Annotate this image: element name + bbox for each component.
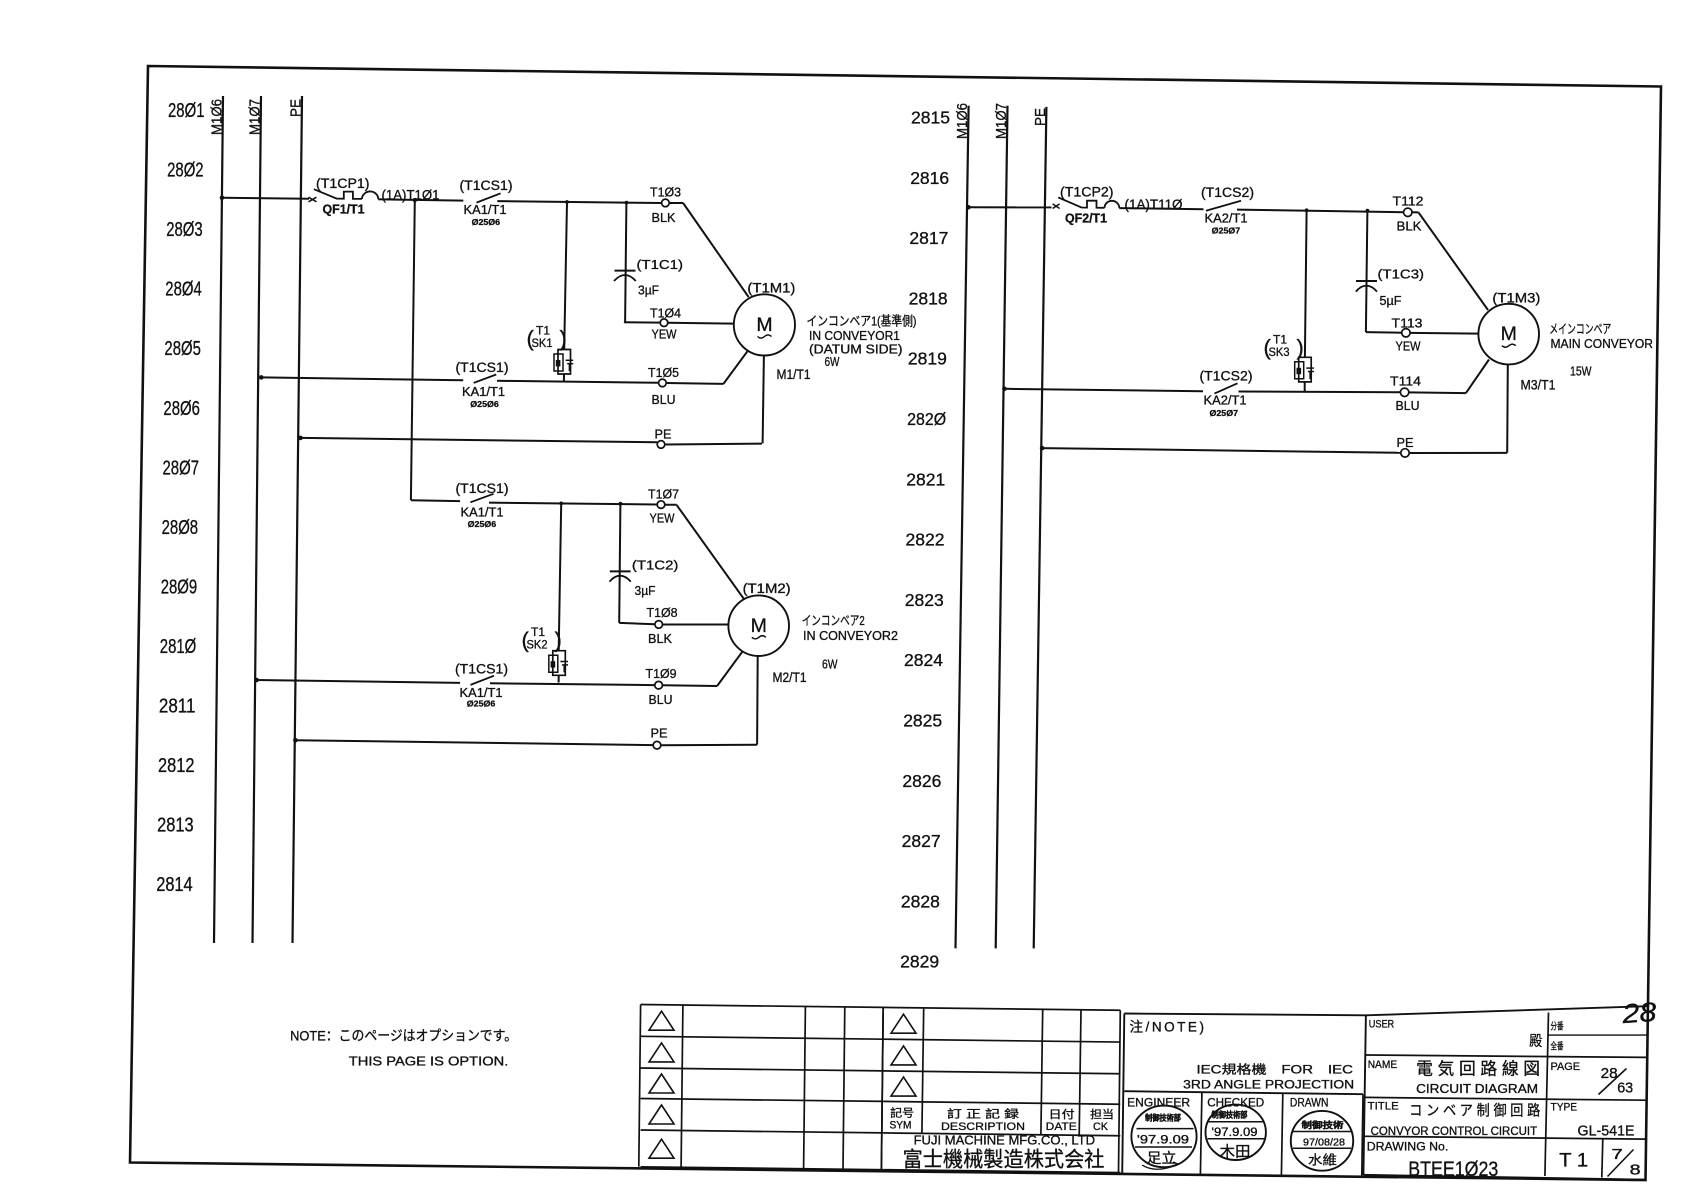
svg-text:): ): [1297, 335, 1304, 360]
svg-text:6W: 6W: [825, 355, 840, 369]
svg-text:制御技術: 制御技術: [1302, 1120, 1345, 1130]
svg-text:DRAWING No.: DRAWING No.: [1367, 1139, 1449, 1153]
svg-text:Ø25Ø6: Ø25Ø6: [468, 519, 497, 529]
svg-text:(T1CS1): (T1CS1): [456, 360, 509, 375]
label MAIN CONVEYOR: [1549, 322, 1653, 379]
svg-text:CHECKED: CHECKED: [1207, 1095, 1264, 1109]
motor M3 lead M3/T1: [1507, 364, 1555, 453]
svg-text:2811: 2811: [159, 696, 196, 718]
svg-text:Ø25Ø6: Ø25Ø6: [467, 699, 496, 709]
svg-text:IEC規格機 FOR IEC: IEC規格機 FOR IEC: [1197, 1061, 1354, 1076]
wire T109 BLU: [490, 651, 743, 707]
svg-text:足立: 足立: [1147, 1150, 1177, 1166]
svg-text:DRAWN: DRAWN: [1290, 1095, 1329, 1109]
svg-text:(DATUM SIDE): (DATUM SIDE): [809, 343, 903, 357]
capacitor C1 (T1C1) 3uF branch: [614, 201, 683, 323]
svg-text:FUJI MACHINE MFG.CO., LTD: FUJI MACHINE MFG.CO., LTD: [914, 1134, 1096, 1148]
svg-text:6W: 6W: [822, 657, 838, 671]
svg-text:28: 28: [1620, 997, 1657, 1029]
svg-text:SK3: SK3: [1269, 345, 1290, 359]
svg-text:Ø25Ø6: Ø25Ø6: [470, 399, 499, 409]
wire to T103: [497, 201, 661, 203]
svg-text:Ø25Ø7: Ø25Ø7: [1210, 408, 1239, 418]
motor M1 lead M1/T1: [763, 356, 811, 444]
svg-text:木田: 木田: [1220, 1144, 1251, 1161]
bus M106 (left): [210, 96, 226, 943]
svg-text:28Ø2: 28Ø2: [167, 160, 204, 182]
svg-text:(T1C2): (T1C2): [632, 557, 679, 572]
svg-text:BLU: BLU: [1396, 398, 1420, 413]
svg-text:MAIN CONVEYOR: MAIN CONVEYOR: [1551, 337, 1654, 351]
svg-text:PE: PE: [651, 726, 668, 741]
bus M107 (left): [248, 96, 264, 943]
svg-text:2818: 2818: [909, 288, 948, 308]
bus PE (right): [1033, 107, 1049, 949]
svg-text:SK1: SK1: [532, 336, 553, 350]
svg-text:BLU: BLU: [652, 392, 676, 407]
svg-text:2819: 2819: [908, 349, 947, 369]
svg-text:2814: 2814: [156, 874, 193, 896]
svg-text:M1/T1: M1/T1: [777, 367, 811, 382]
svg-text:7: 7: [1611, 1147, 1623, 1163]
wire circuit 2 top: [411, 499, 460, 502]
capacitor C3 (T1C3) 5uF branch: [1356, 209, 1424, 332]
svg-text:Ø25Ø6: Ø25Ø6: [472, 217, 501, 227]
svg-text:8: 8: [1630, 1163, 1641, 1179]
svg-text:28Ø7: 28Ø7: [163, 457, 200, 479]
node T103: [650, 185, 681, 225]
node T107 wire YEW: [648, 486, 679, 525]
svg-text:(T1CS1): (T1CS1): [460, 178, 513, 193]
wire T110: [1119, 197, 1203, 212]
svg-text:3RD ANGLE PROJECTION: 3RD ANGLE PROJECTION: [1183, 1078, 1354, 1092]
svg-text:(T1M1): (T1M1): [747, 280, 795, 295]
svg-text:インコンベア1(基準側): インコンベア1(基準側): [807, 314, 917, 329]
svg-text:T112: T112: [1393, 193, 1424, 208]
svg-text:T1Ø4: T1Ø4: [650, 305, 681, 320]
svg-text:(T1CP1): (T1CP1): [316, 176, 370, 191]
capacitor C2 (T1C2) 3uF branch: [610, 502, 679, 623]
svg-text:28Ø5: 28Ø5: [164, 338, 201, 360]
svg-text:SK2: SK2: [527, 638, 548, 652]
svg-text:(T1CS2): (T1CS2): [1201, 185, 1254, 200]
svg-text:DESCRIPTION: DESCRIPTION: [941, 1121, 1025, 1133]
svg-text:'97.9.09: '97.9.09: [1212, 1127, 1258, 1139]
svg-text:(T1M3): (T1M3): [1492, 290, 1540, 305]
svg-text:USER: USER: [1369, 1019, 1395, 1031]
contact KA2/T1 (T1CS2) lower: [1200, 368, 1253, 418]
svg-text:BLU: BLU: [649, 692, 673, 707]
wire T112 diagonal to motor M3: [1412, 212, 1488, 310]
svg-text:(T1M2): (T1M2): [743, 581, 791, 596]
svg-text:2829: 2829: [900, 952, 939, 972]
svg-text:(T1CS1): (T1CS1): [456, 481, 509, 496]
engineer stamp: [1131, 1106, 1196, 1170]
svg-text:(T1CS2): (T1CS2): [1200, 368, 1253, 383]
svg-text:KA1/T1: KA1/T1: [461, 506, 504, 520]
svg-text:BLK: BLK: [648, 631, 672, 646]
svg-text:YEW: YEW: [650, 510, 676, 525]
row labels 2815-2829: [900, 108, 950, 972]
svg-text:KA2/T1: KA2/T1: [1204, 394, 1247, 408]
svg-text:KA1/T1: KA1/T1: [464, 203, 507, 217]
svg-text:殿: 殿: [1529, 1034, 1542, 1050]
svg-text:(1A)T1Ø1: (1A)T1Ø1: [382, 188, 440, 203]
svg-text:日付: 日付: [1049, 1108, 1075, 1121]
svg-text:T 1: T 1: [1559, 1151, 1588, 1172]
wire to T107: [489, 503, 657, 505]
circuit breaker QF2/T1 (T1CP2): [1053, 184, 1120, 225]
node T104 wire YEW: [624, 305, 734, 341]
svg-text:M: M: [756, 314, 772, 336]
svg-text:BLK: BLK: [652, 210, 676, 225]
row labels 2801-2814: [156, 100, 204, 896]
svg-text:3µF: 3µF: [635, 583, 656, 598]
contact KA2/T1 (T1CS2) upper: [1201, 185, 1254, 235]
svg-text:97/08/28: 97/08/28: [1303, 1137, 1345, 1149]
svg-text:T1Ø9: T1Ø9: [646, 666, 677, 681]
svg-text:'97.9.09: '97.9.09: [1137, 1135, 1189, 1147]
svg-text:QF2/T1: QF2/T1: [1065, 211, 1107, 225]
node T113 wire YEW: [1366, 316, 1479, 354]
svg-text:KA2/T1: KA2/T1: [1205, 212, 1248, 226]
engineer checked drawn cells: [1127, 1093, 1363, 1177]
title block: [1363, 1006, 1647, 1180]
contact KA1/T1 (T1CS1) circuit2 lower: [455, 662, 508, 709]
wire from M107 to circuit2 contact: [254, 678, 460, 683]
svg-text:BLK: BLK: [1397, 218, 1422, 233]
bus PE (left): [289, 96, 305, 943]
wire from M106 right to breaker QF2: [966, 205, 1051, 210]
svg-text:PE: PE: [655, 426, 672, 441]
wire T107 diagonal to motor M2: [677, 505, 744, 599]
svg-text:ENGINEER: ENGINEER: [1127, 1095, 1190, 1109]
svg-text:28Ø9: 28Ø9: [161, 576, 198, 598]
contact KA1/T1 (T1CS1) circuit1 upper: [460, 178, 513, 227]
svg-text:(T1C3): (T1C3): [1378, 266, 1425, 281]
svg-text:(1A)T11Ø: (1A)T11Ø: [1125, 197, 1183, 212]
thermal protector SK1 (T1) branch: [527, 200, 574, 381]
title block DRAWING cell: [1367, 1139, 1641, 1181]
svg-text:記号: 記号: [890, 1106, 914, 1120]
svg-text:5µF: 5µF: [1380, 293, 1402, 308]
svg-text:富士機械製造株式会社: 富士機械製造株式会社: [903, 1149, 1105, 1172]
svg-text:2822: 2822: [906, 530, 945, 550]
svg-text:TITLE: TITLE: [1368, 1101, 1399, 1113]
svg-text:分番: 分番: [1551, 1021, 1564, 1033]
svg-text:訂 正 記 録: 訂 正 記 録: [947, 1107, 1019, 1121]
note text this page is option: [290, 1027, 517, 1068]
svg-text:THIS PAGE IS OPTION.: THIS PAGE IS OPTION.: [349, 1055, 509, 1069]
svg-text:IN CONVEYOR2: IN CONVEYOR2: [803, 629, 898, 643]
bus M106 (right): [955, 103, 971, 948]
svg-text:QF1/T1: QF1/T1: [323, 202, 365, 216]
svg-text:28Ø3: 28Ø3: [166, 219, 203, 241]
svg-text:CONVYOR CONTROL CIRCUIT: CONVYOR CONTROL CIRCUIT: [1371, 1124, 1538, 1138]
svg-text:T114: T114: [1390, 374, 1421, 389]
svg-text:2825: 2825: [903, 711, 942, 731]
svg-text:T1Ø3: T1Ø3: [650, 185, 681, 200]
svg-text:コ ン ベ ア 制 御 回 路: コ ン ベ ア 制 御 回 路: [1409, 1102, 1540, 1119]
svg-text:M: M: [751, 615, 767, 637]
svg-text:BTEE1Ø23: BTEE1Ø23: [1408, 1158, 1498, 1181]
svg-text:2812: 2812: [158, 755, 195, 777]
revision table left: [639, 1005, 883, 1170]
motor M3 (T1M3): [1478, 290, 1540, 364]
svg-text:Ø25Ø7: Ø25Ø7: [1212, 226, 1241, 236]
svg-text:28Ø6: 28Ø6: [163, 398, 200, 420]
svg-text:T113: T113: [1392, 316, 1423, 331]
junction to circuit 2: [413, 198, 417, 202]
svg-text:): ): [560, 326, 567, 351]
wire to T112: [1237, 210, 1404, 213]
svg-text:制御技術部: 制御技術部: [1145, 1112, 1181, 1122]
svg-text:インコンベア2: インコンベア2: [802, 613, 865, 628]
svg-text:M: M: [1501, 323, 1517, 345]
svg-text:T1Ø5: T1Ø5: [648, 365, 679, 380]
PE wire circuit 3: [1040, 435, 1507, 457]
motor M2 (T1M2): [728, 581, 790, 656]
checked stamp: [1206, 1105, 1266, 1161]
svg-text:制御技術部: 制御技術部: [1212, 1110, 1248, 1120]
svg-text:2827: 2827: [902, 831, 941, 851]
svg-text:2817: 2817: [909, 228, 948, 248]
svg-text:T1Ø8: T1Ø8: [647, 605, 678, 620]
svg-text:全番: 全番: [1551, 1041, 1564, 1053]
svg-text:M2/T1: M2/T1: [773, 670, 807, 685]
wire from M107 right to contact: [1002, 387, 1203, 392]
svg-text:2828: 2828: [901, 891, 940, 911]
svg-text:(T1C1): (T1C1): [637, 257, 684, 272]
svg-text:282Ø: 282Ø: [907, 409, 946, 429]
svg-text:TYPE: TYPE: [1551, 1102, 1578, 1114]
wire T101: [378, 188, 463, 203]
svg-text:注/NOTE): 注/NOTE): [1130, 1020, 1207, 1035]
wire T105 BLU: [497, 351, 747, 407]
revision table right: [881, 1007, 1120, 1172]
svg-text:IN CONVEYOR1: IN CONVEYOR1: [809, 329, 900, 343]
wire T114 BLU: [1239, 360, 1490, 413]
svg-text:PAGE: PAGE: [1551, 1061, 1581, 1073]
thermal protector SK3 (T1) branch: [1264, 208, 1314, 391]
svg-text:担当: 担当: [1090, 1107, 1114, 1121]
svg-text:電 気 回 路 線 図: 電 気 回 路 線 図: [1416, 1060, 1540, 1079]
PE wire circuit 2: [293, 726, 757, 749]
handwritten page number 28: [1620, 997, 1657, 1029]
svg-text:GL-541E: GL-541E: [1578, 1124, 1635, 1140]
node T108 wire BLK: [619, 605, 728, 646]
svg-text:2821: 2821: [906, 469, 945, 489]
svg-text:2824: 2824: [904, 650, 943, 670]
svg-text:2813: 2813: [157, 815, 194, 837]
svg-text:): ): [555, 628, 562, 653]
svg-text:(T1CP2): (T1CP2): [1060, 184, 1114, 199]
svg-text:T1Ø7: T1Ø7: [648, 486, 679, 501]
label IN CONVEYOR1: [807, 314, 917, 370]
svg-text:SYM: SYM: [890, 1120, 912, 1132]
label IN CONVEYOR2: [802, 613, 898, 671]
title block TITLE cell: [1368, 1101, 1635, 1140]
svg-text:NAME: NAME: [1368, 1059, 1398, 1071]
svg-text:2815: 2815: [911, 108, 950, 128]
svg-text:28Ø1: 28Ø1: [168, 100, 205, 122]
motor M1 (T1M1): [734, 280, 796, 355]
svg-text:15W: 15W: [1570, 365, 1592, 379]
svg-text:KA1/T1: KA1/T1: [462, 385, 505, 399]
contact KA1/T1 (T1CS1) circuit1 lower: [456, 360, 509, 409]
svg-text:PE: PE: [1397, 435, 1414, 450]
svg-text:3µF: 3µF: [638, 282, 659, 297]
svg-text:63: 63: [1617, 1080, 1633, 1096]
svg-text:YEW: YEW: [1396, 338, 1422, 353]
svg-text:2816: 2816: [910, 168, 949, 188]
motor M2 lead M2/T1: [757, 656, 806, 745]
company cell FUJI MACHINE MFG CO LTD: [903, 1134, 1105, 1172]
svg-text:DATE: DATE: [1046, 1121, 1077, 1133]
svg-text:YEW: YEW: [652, 327, 678, 342]
PE wire circuit 1: [298, 426, 762, 448]
circuit breaker QF1/T1 (T1CP1): [309, 176, 379, 216]
svg-text:M3/T1: M3/T1: [1521, 378, 1556, 393]
wire T103 diagonal to motor: [669, 203, 749, 297]
bus M107 (right): [994, 103, 1010, 948]
svg-text:281Ø: 281Ø: [160, 636, 197, 658]
contact KA1/T1 (T1CS1) circuit2 upper: [456, 481, 509, 529]
svg-text:28Ø4: 28Ø4: [165, 279, 202, 301]
note box: [1122, 1014, 1366, 1175]
title block NAME cell: [1368, 1059, 1634, 1096]
svg-text:(T1CS1): (T1CS1): [455, 662, 508, 677]
node T112 BLK: [1393, 193, 1424, 233]
svg-text:NOTE：このページはオプションです。: NOTE：このページはオプションです。: [290, 1027, 517, 1043]
wire from M107 to contact: [259, 375, 463, 380]
svg-text:水維: 水維: [1308, 1153, 1337, 1168]
svg-text:28Ø8: 28Ø8: [162, 517, 199, 539]
drawn stamp: [1291, 1111, 1353, 1171]
svg-text:メインコンベア: メインコンベア: [1549, 322, 1611, 337]
wire junction drop to circuit 2: [411, 200, 415, 500]
title block USER cell: [1369, 1019, 1564, 1053]
svg-text:2826: 2826: [902, 771, 941, 791]
svg-text:CK: CK: [1093, 1121, 1109, 1133]
wire from M106 to breaker QF1: [220, 196, 309, 201]
thermal protector SK2 (T1) branch: [522, 502, 569, 683]
revision header SYM DESCRIPTION DATE CK: [890, 1106, 1115, 1134]
svg-text:2823: 2823: [905, 590, 944, 610]
svg-text:CIRCUIT DIAGRAM: CIRCUIT DIAGRAM: [1416, 1082, 1538, 1096]
